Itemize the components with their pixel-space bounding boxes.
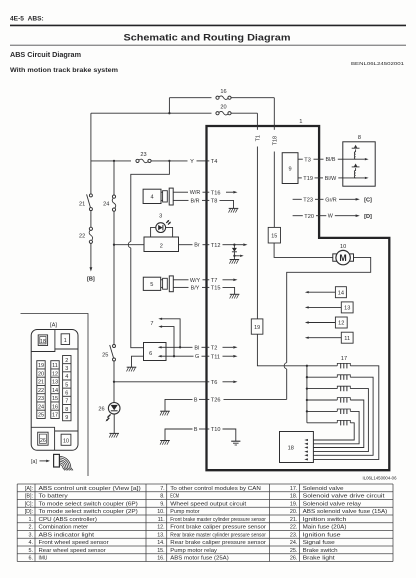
ecm 8 box [343,142,375,186]
svg-text:T19: T19 [303,176,313,182]
svg-text:12: 12 [52,371,58,377]
svg-text:To mode select switch coupler: To mode select switch coupler (2P) [39,509,139,515]
svg-text:6: 6 [65,390,68,396]
svg-text:T6: T6 [211,380,218,386]
wire solenoid 2 return to drive circuit [313,377,373,455]
drive circuit input arrow 6 [304,458,308,460]
node junction below diode [233,255,235,257]
svg-text:T20: T20 [304,214,314,220]
svg-text:Schematic and Routing Diagram: Schematic and Routing Diagram [124,33,291,44]
drive circuit input arrow 2 [304,443,308,445]
svg-text:6: 6 [149,351,152,357]
pin 18 [38,335,47,346]
svg-text:23: 23 [38,396,44,402]
wire solenoid bus [306,366,308,423]
fuse 22 main fuse [89,227,92,230]
ground IMU [127,366,137,368]
svg-text:Front brake caliper pressure s: Front brake caliper pressure sensor [170,525,266,531]
wire T26 to pump motor return [224,398,287,400]
wire to mode select coupler 6P [339,198,356,200]
svg-text:2: 2 [65,358,68,364]
svg-text:Bl: Bl [194,345,199,351]
wire fuse 20 to T1 corner [231,112,257,114]
svg-text:[C]:: [C]: [25,501,33,507]
node [B] to battery arrow [90,267,93,271]
svg-text:ECM: ECM [170,494,179,500]
svg-text:3.: 3. [29,532,34,538]
node junction combination meter branch [113,244,115,246]
node bus junction row4 [306,399,308,401]
svg-text:18: 18 [288,446,294,452]
svg-text:18: 18 [40,339,46,345]
imu input arrows [161,346,166,348]
svg-text:Ignition switch: Ignition switch [303,517,347,523]
svg-text:21: 21 [38,380,44,386]
drive circuit input arrow 5 [304,454,308,456]
ecm valve symbol 1 [354,149,355,159]
lamp 26 brake light [108,403,120,415]
svg-text:[a]: [a] [31,459,37,465]
wire solenoid 4 return to drive circuit [313,400,363,448]
wire motor return loop [287,257,371,362]
svg-text:24: 24 [103,202,109,208]
wire between switch 21 and fuse 22 [90,211,92,227]
wire fuse 16 line left part [169,97,211,99]
arrow to coupler icon [40,460,47,462]
svg-text:To mode select switch coupler: To mode select switch coupler (6P) [39,501,139,507]
svg-text:11.: 11. [158,517,165,523]
ground brake light [109,432,119,434]
drive circuit input arrow 1 [304,439,308,441]
wire sensor 12 signal to CPU [309,322,336,324]
svg-text:IMU: IMU [39,556,48,562]
wire motor return to T26 [286,369,288,399]
svg-text:8: 8 [65,407,68,413]
svg-text:9.: 9. [160,501,165,507]
svg-text:15: 15 [271,234,277,240]
circuit 9 wheel speed output circuit [282,153,298,184]
svg-text:[D]:: [D]: [25,509,33,515]
svg-text:25.: 25. [290,548,298,554]
svg-text:6.: 6. [29,556,34,562]
svg-text:[A]: [A] [50,322,57,328]
svg-text:M: M [339,253,346,263]
sensor 11 pressure sensor [341,332,353,343]
svg-text:T23: T23 [303,197,313,203]
svg-text:17: 17 [52,413,58,419]
wire sensor 11 signal to CPU [309,337,342,339]
wire fuse 24 down to meter branch [113,211,115,244]
wire relay 19 output to solenoid bus [257,334,307,366]
diode indicator driver [233,245,235,248]
ecm valve symbol 2 [354,168,355,178]
svg-text:11: 11 [52,363,58,369]
ground indicator driver [230,259,240,261]
connector A top divider [31,330,78,352]
svg-text:T10: T10 [211,427,221,433]
svg-text:ABS solenoid valve fuse (15A): ABS solenoid valve fuse (15A) [303,509,388,515]
svg-text:W/R: W/R [190,190,201,196]
ground T15 [230,293,240,295]
wire T18 drop into CPU down to pump motor relay 15 [273,98,275,130]
sensor 12 pressure sensor [335,317,347,328]
svg-text:Solenoid valve relay: Solenoid valve relay [303,501,362,507]
svg-text:Y: Y [190,159,194,165]
svg-text:W: W [328,214,334,220]
svg-text:B/Y: B/Y [191,285,200,291]
svg-text:4: 4 [65,374,68,380]
ground internal 3-bar [231,440,240,442]
wire B ground lead of T26 [165,399,193,411]
svg-text:[A]:: [A]: [25,486,33,492]
wire below fuse 22 to battery arrow [90,244,92,268]
svg-text:14: 14 [338,290,344,296]
wire solenoid 5 return to drive circuit [313,411,359,443]
wire IMU feed continues to IMU 6 [131,248,144,348]
svg-text:20.: 20. [290,509,298,515]
wire B/Y to T15 [173,286,188,288]
svg-text:23.: 23. [290,532,298,538]
svg-text:[C]: [C] [364,197,372,203]
svg-text:2: 2 [160,244,163,250]
svg-text:Ignition fuse: Ignition fuse [303,532,341,538]
svg-text:9: 9 [65,415,68,421]
pin 26 [38,432,48,445]
svg-text:Gr/R: Gr/R [325,197,336,203]
lamp 3 flash mark [166,221,170,225]
svg-text:Front brake master cylinder pr: Front brake master cylinder pressure sen… [170,517,266,523]
wire brake switch junction to pin T6 [114,381,209,383]
wire G to T11 [166,355,194,357]
connector pins of sensor 4 [161,191,163,193]
wire Br to T12 [179,244,193,246]
svg-text:26.: 26. [290,556,298,562]
sensor 13 pressure sensor [341,302,353,313]
ground power ground 2 [160,440,170,442]
pin 1 [61,334,70,345]
svg-text:Combination meter: Combination meter [39,525,89,531]
ground power ground 1 [160,410,170,412]
svg-text:Front wheel speed sensor: Front wheel speed sensor [39,540,109,546]
switch 21 ignition switch [89,194,92,197]
wire Y to pin T4 [197,160,210,162]
wire lamp 3 bracket into meter [151,227,156,237]
node junction brake light / T6 [113,381,115,383]
coupler wire loom [60,456,71,467]
wire hop motor return over relay-bus line [284,363,287,369]
svg-text:T11: T11 [211,354,220,360]
svg-text:16.: 16. [157,556,165,562]
svg-text:T18: T18 [272,136,278,145]
connector pins of sensor 5 [161,279,163,281]
svg-text:22: 22 [79,233,85,239]
svg-text:12: 12 [338,321,344,327]
circuit 18 solenoid valve drive circuit [280,432,314,463]
wire to mode select coupler 2P [335,215,356,217]
svg-text:B: B [194,427,198,433]
wire T15 to ground [223,287,235,294]
svg-text:5: 5 [150,282,153,288]
wire B/R to T8 [173,199,188,201]
svg-text:Bl/W: Bl/W [325,176,337,182]
wire sensor 14 signal to CPU [309,291,336,293]
wire fuse 23 to Y label [151,160,188,162]
wire solenoid 6 return to drive circuit [313,423,354,440]
svg-text:B/R: B/R [191,198,200,204]
pin column strip 11-17 [51,361,59,419]
svg-text:Pump motor relay: Pump motor relay [170,548,217,554]
node junction fuse16 branch [168,112,170,114]
drive circuit input arrow 4 [304,450,308,452]
wire branch to combination meter 2 [114,244,144,246]
node junction IMU feed branch [168,160,170,162]
wire T1 drop into CPU down to relay 19 [256,113,258,130]
svg-text:16: 16 [220,89,226,95]
svg-text:24.: 24. [290,540,298,546]
lamp 26 flash mark [107,414,111,420]
svg-text:Pump motor: Pump motor [170,509,199,515]
imu 6 IMU box [144,343,167,361]
view separator corner [21,314,89,477]
wire T19 from box 9 [298,177,302,179]
node bus junction row2 [306,376,308,378]
svg-text:4.: 4. [29,540,34,546]
node bus junction row3 [306,387,308,389]
svg-text:12.: 12. [157,525,165,531]
ecm input line 1 with arrow [343,158,365,160]
wire IMU feed from ignition fuse line [131,161,170,242]
svg-text:B: B [194,397,198,403]
svg-text:5.: 5. [29,548,34,554]
wire fuse 16 to T18 corner [231,97,274,99]
node bus junction row6 [307,422,337,424]
title underline [10,44,406,46]
wire diode to ground [233,256,235,260]
wire riser to signal fuse 24 [113,161,115,195]
svg-text:25: 25 [38,413,44,419]
svg-text:19.: 19. [290,501,298,507]
fuse 23 ignition fuse [136,159,139,162]
svg-text:25: 25 [102,353,108,359]
node bus junction row5 [306,410,308,412]
sensor 4 front wheel speed sensor [143,189,161,203]
svg-text:21.: 21. [290,517,298,523]
wire relay 15 to motor [274,243,333,257]
wire stub T23 [293,198,302,200]
fuse 24 signal fuse [112,195,115,198]
svg-text:7.: 7. [160,486,165,492]
svg-text:23: 23 [140,152,146,158]
svg-text:T3: T3 [304,157,311,163]
svg-text:20: 20 [38,371,44,377]
wire top feed horizontal (ignition line) [91,112,212,114]
svg-text:19: 19 [254,325,260,331]
svg-text:Rear brake caliper pressure se: Rear brake caliper pressure sensor [170,540,266,546]
relay 15 pump motor relay [268,227,280,243]
node solenoid bus junction row1 [306,365,308,367]
svg-text:26: 26 [98,406,104,412]
sensor 14 pressure sensor [335,287,346,298]
svg-text:T7: T7 [211,278,218,284]
svg-text:W/Y: W/Y [190,278,201,284]
svg-text:T1: T1 [256,135,262,141]
svg-text:ABS Circuit Diagram: ABS Circuit Diagram [10,52,81,59]
fuse 16 ABS motor fuse [216,96,219,99]
svg-text:22.: 22. [290,525,298,531]
svg-text:26: 26 [40,438,46,444]
wire CAN hi to other modules [161,319,180,348]
wire brake switch to junction [113,361,115,382]
svg-text:IL06L1450004-06: IL06L1450004-06 [363,476,398,481]
svg-text:Solenoid valve drive circuit: Solenoid valve drive circuit [303,494,385,500]
pin column strip 2-9 [63,356,71,421]
wire W/Y to T7 [173,279,188,281]
svg-text:G: G [195,354,199,360]
wire T3 from box 9 [298,158,303,160]
solenoid valve 17 coil 1 [307,365,337,367]
svg-text:4: 4 [150,195,153,201]
svg-text:ABS indicator light: ABS indicator light [39,532,95,538]
svg-text:Rear brake master cylinder pre: Rear brake master cylinder pressure sens… [170,532,266,538]
svg-text:1: 1 [299,119,302,125]
svg-text:Solenoid valve: Solenoid valve [303,486,344,492]
svg-text:[B]:: [B]: [25,494,33,500]
op CPU box U1 outline (ABS controller) [207,126,390,470]
wire lamp 26 to ground [113,414,115,433]
svg-text:3: 3 [65,366,68,372]
svg-text:18.: 18. [290,494,298,500]
fuse 20 ABS solenoid valve fuse [216,112,219,115]
svg-text:[D]: [D] [364,214,372,220]
wire sensor 13 signal to CPU [309,306,342,308]
svg-text:2.: 2. [29,525,34,531]
svg-text:Brake light: Brake light [303,556,336,562]
connector A outline [31,330,78,451]
svg-text:20: 20 [220,104,226,110]
svg-text:15: 15 [52,396,58,402]
wire riser down to brake switch 25 [113,245,115,345]
svg-text:16: 16 [52,404,58,410]
pin column strip 19-25 [37,361,45,419]
node junction CAN lo tap [173,355,175,357]
svg-text:22: 22 [38,388,44,394]
svg-text:Signal fuse: Signal fuse [303,540,335,546]
svg-text:7: 7 [150,321,153,327]
wire W/R to T16 [173,191,188,193]
svg-text:10: 10 [63,439,69,445]
coupler icon body [54,454,60,467]
svg-text:14: 14 [52,388,58,394]
svg-text:24: 24 [38,404,44,410]
svg-text:Bl/B: Bl/B [326,157,336,163]
pin 10 [61,434,71,445]
svg-text:10.: 10. [157,509,165,515]
svg-text:19: 19 [38,363,44,369]
svg-text:Main fuse (20A): Main fuse (20A) [303,525,347,531]
wire B ground lead of T10 [165,429,193,441]
svg-text:1: 1 [64,338,67,344]
svg-text:CPU (ABS controller): CPU (ABS controller) [39,517,98,523]
wire hop over meter branch [128,242,131,248]
wire solenoid 1 return to drive circuit [313,366,378,460]
svg-text:14.: 14. [157,540,165,546]
svg-text:T4: T4 [211,159,218,165]
wire riser to fuse 16 line [168,98,170,114]
drive circuit input arrow 3 [304,446,308,448]
svg-text:9: 9 [288,166,291,172]
svg-text:21: 21 [79,202,85,208]
wire solenoid 3 return to drive circuit [313,389,368,452]
svg-text:With motion track brake system: With motion track brake system [10,67,119,74]
header rule [10,24,406,26]
relay 19 solenoid valve relay [251,319,263,334]
svg-text:8.: 8. [160,494,165,500]
wire imu ground lead [132,356,144,367]
wire T10 to internal ground [223,429,236,441]
svg-text:13: 13 [344,306,350,312]
svg-text:T12: T12 [211,243,221,249]
svg-text:Brake switch: Brake switch [303,548,338,554]
legend table frame [17,484,393,562]
svg-text:Rear wheel speed sensor: Rear wheel speed sensor [39,548,106,554]
svg-text:5: 5 [65,382,68,388]
wire Bl to T2 [166,346,193,348]
svg-text:10: 10 [340,244,346,250]
node junction CAN hi tap [179,346,181,348]
svg-text:[B]: [B] [87,277,95,283]
svg-text:13: 13 [52,380,58,386]
svg-text:1.: 1. [29,517,34,523]
wire junction down to brake light 26 [113,382,115,403]
node junction T12 [233,244,235,246]
svg-text:3: 3 [159,214,162,220]
connector A bottom divider [31,427,78,450]
svg-text:15.: 15. [157,548,165,554]
ground T8 [229,207,239,209]
svg-text:17.: 17. [290,486,298,492]
wire stub T20 [293,215,303,217]
svg-text:To battery: To battery [39,494,69,500]
svg-text:4E-5 ABS:: 4E-5 ABS: [10,16,44,23]
svg-text:Wheel speed output circuit: Wheel speed output circuit [170,501,246,507]
svg-text:T16: T16 [211,190,221,196]
svg-text:17: 17 [341,356,347,362]
ecm input line 2 with arrow [343,177,365,179]
svg-text:T26: T26 [211,398,221,404]
svg-text:13.: 13. [157,532,165,538]
svg-text:11: 11 [344,336,350,342]
svg-text:To other control modules by CA: To other control modules by CAN [170,486,261,492]
svg-text:T2: T2 [211,345,218,351]
svg-text:8: 8 [358,135,361,141]
svg-text:T15: T15 [211,286,221,292]
sensor 5 rear wheel speed sensor [143,277,160,290]
wire battery riser top segment [90,113,92,194]
svg-text:T8: T8 [211,199,218,205]
switch 25 brake switch [113,345,116,348]
node junction signal fuse branch [113,160,115,162]
svg-text:Br: Br [194,243,200,249]
wire ignition fuse line from battery riser [91,160,131,162]
svg-text:7: 7 [65,399,68,405]
svg-text:ABS motor fuse (25A): ABS motor fuse (25A) [170,556,229,562]
svg-text:BENL06L24502001: BENL06L24502001 [351,61,405,66]
wire T8 to ground [220,200,234,208]
meter 2 combination meter [144,237,179,252]
wire CAN lo to other modules [161,327,174,357]
svg-text:ABS control unit coupler (View: ABS control unit coupler (View [a]) [39,486,141,492]
